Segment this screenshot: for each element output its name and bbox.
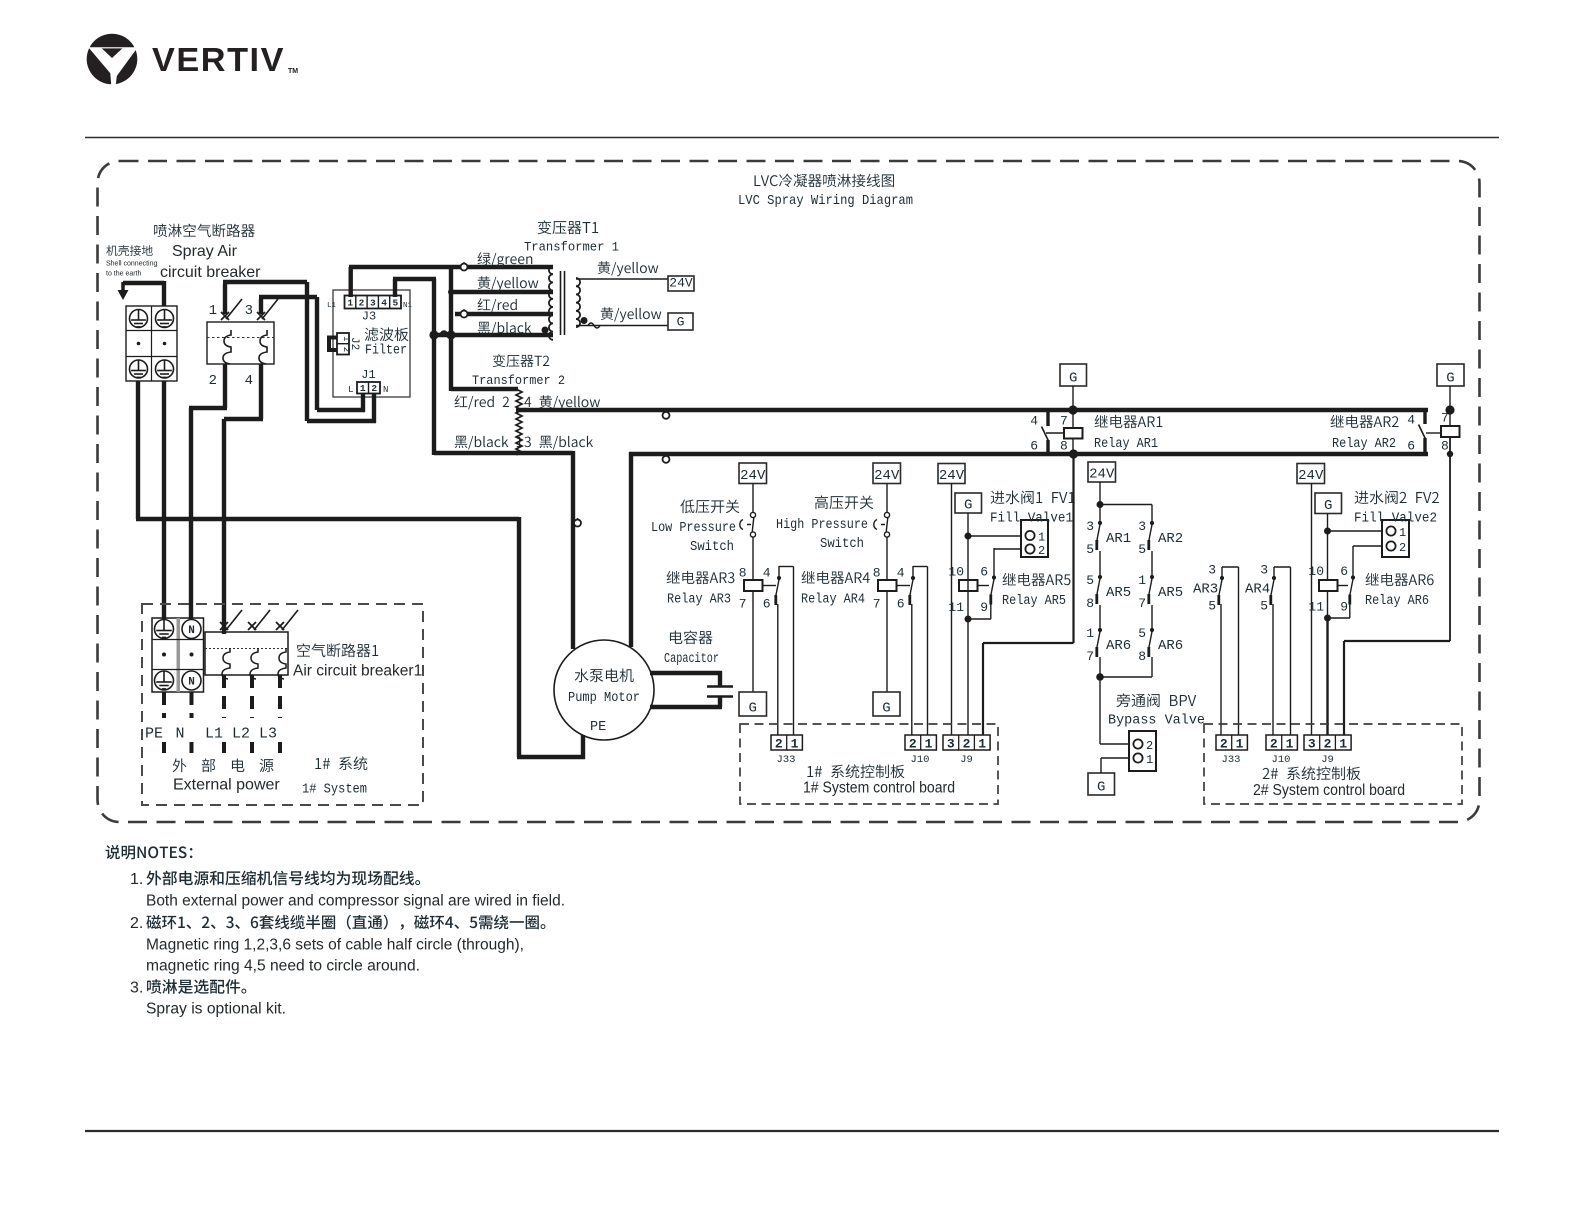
svg-text:8: 8: [1138, 649, 1146, 664]
svg-text:1: 1: [925, 736, 933, 751]
svg-text:1: 1: [1038, 531, 1045, 545]
svg-text:TM: TM: [288, 68, 298, 75]
svg-text:High Pressure: High Pressure: [776, 518, 868, 533]
svg-text:J9: J9: [1321, 754, 1334, 766]
svg-text:8: 8: [1060, 439, 1068, 454]
svg-text:2: 2: [371, 383, 377, 394]
svg-text:AR3: AR3: [1193, 582, 1218, 598]
svg-text:6: 6: [980, 565, 988, 580]
svg-text:3: 3: [947, 736, 955, 751]
svg-text:AR4: AR4: [1245, 582, 1270, 598]
svg-text:Fill Valve1: Fill Valve1: [990, 512, 1073, 527]
svg-text:AR5: AR5: [1158, 585, 1183, 601]
svg-text:2# System control board: 2# System control board: [1253, 782, 1405, 799]
svg-text:Spray is optional kit.: Spray is optional kit.: [146, 1001, 286, 1018]
svg-text:G: G: [677, 315, 685, 330]
svg-text:2: 2: [1399, 541, 1406, 555]
svg-text:4: 4: [1030, 414, 1038, 429]
svg-text:3: 3: [370, 298, 376, 309]
svg-text:1: 1: [209, 303, 217, 319]
svg-text:Switch: Switch: [690, 540, 734, 555]
svg-text:Bypass Valve: Bypass Valve: [1108, 714, 1205, 729]
svg-text:24V: 24V: [740, 468, 766, 484]
svg-text:3: 3: [1138, 519, 1146, 534]
svg-text:G: G: [749, 701, 757, 717]
svg-text:9: 9: [980, 600, 988, 615]
svg-text:G: G: [882, 701, 890, 717]
svg-text:J3: J3: [362, 310, 376, 324]
svg-text:magnetic ring 4,5 need to circ: magnetic ring 4,5 need to circle around.: [146, 958, 420, 975]
svg-text:2: 2: [1324, 736, 1332, 751]
svg-text:J9: J9: [960, 754, 973, 766]
svg-text:J10: J10: [911, 754, 930, 766]
svg-text:6: 6: [763, 597, 771, 612]
svg-text:3: 3: [1260, 563, 1268, 578]
svg-text:Air circuit breaker1: Air circuit breaker1: [293, 663, 422, 680]
svg-text:4: 4: [1407, 413, 1415, 428]
svg-text:7: 7: [739, 597, 747, 612]
svg-text:5: 5: [393, 298, 399, 309]
svg-text:24V: 24V: [1298, 468, 1324, 484]
svg-text:5: 5: [1086, 573, 1094, 588]
svg-text:2: 2: [775, 736, 783, 751]
svg-text:2: 2: [1146, 739, 1153, 753]
svg-text:1: 1: [347, 298, 353, 309]
svg-text:5: 5: [1138, 542, 1146, 557]
svg-text:7: 7: [873, 597, 881, 612]
svg-text:G: G: [964, 498, 972, 514]
svg-text:Shell connecting: Shell connecting: [106, 261, 157, 268]
svg-text:5: 5: [1086, 542, 1094, 557]
svg-text:Both external power and compre: Both external power and compressor signa…: [146, 893, 565, 910]
svg-text:1: 1: [1236, 736, 1244, 751]
svg-text:Transformer 1: Transformer 1: [524, 241, 619, 255]
svg-text:1: 1: [1138, 573, 1146, 588]
svg-text:4: 4: [763, 566, 771, 581]
svg-text:11: 11: [948, 600, 964, 615]
svg-text:1: 1: [1146, 753, 1153, 767]
svg-text:L3: L3: [259, 726, 277, 743]
svg-text:2: 2: [209, 373, 217, 389]
svg-text:Transformer 2: Transformer 2: [472, 374, 565, 388]
svg-text:External power: External power: [173, 777, 280, 794]
svg-text:1.: 1.: [130, 871, 143, 888]
svg-text:5: 5: [1260, 599, 1268, 614]
svg-text:L: L: [348, 385, 353, 395]
svg-text:10: 10: [948, 565, 964, 580]
svg-text:Relay AR1: Relay AR1: [1094, 437, 1158, 452]
svg-text:2: 2: [1270, 736, 1278, 751]
svg-text:2: 2: [909, 736, 917, 751]
svg-text:J33: J33: [1222, 754, 1241, 766]
svg-text:3: 3: [1086, 519, 1094, 534]
svg-text:G: G: [1097, 780, 1105, 796]
svg-text:2: 2: [963, 736, 971, 751]
svg-text:8: 8: [1441, 439, 1449, 454]
svg-text:8: 8: [873, 566, 881, 581]
svg-text:7: 7: [1060, 414, 1068, 429]
svg-text:1: 1: [1086, 626, 1094, 641]
svg-text:24V: 24V: [1089, 467, 1115, 483]
svg-text:8: 8: [739, 566, 747, 581]
svg-text:24V: 24V: [939, 468, 965, 484]
svg-text:2.: 2.: [130, 915, 143, 932]
svg-text:Pump Motor: Pump Motor: [568, 691, 640, 706]
svg-text:Relay AR5: Relay AR5: [1002, 594, 1066, 609]
svg-text:G: G: [1069, 371, 1077, 387]
svg-text:3: 3: [1208, 563, 1216, 578]
svg-text:N: N: [383, 385, 388, 395]
svg-text:2: 2: [359, 298, 365, 309]
svg-text:Fill Valve2: Fill Valve2: [1354, 512, 1437, 527]
svg-text:2: 2: [1038, 544, 1045, 558]
svg-text:J10: J10: [1272, 754, 1291, 766]
svg-text:7: 7: [1086, 649, 1094, 664]
svg-text:Spray Air: Spray Air: [172, 243, 238, 260]
svg-text:1: 1: [1339, 736, 1347, 751]
svg-text:24V: 24V: [874, 468, 900, 484]
svg-text:J33: J33: [777, 754, 796, 766]
svg-text:AR6: AR6: [1158, 638, 1183, 654]
svg-text:3: 3: [1308, 736, 1316, 751]
svg-text:6: 6: [1407, 439, 1415, 454]
svg-text:2: 2: [1220, 736, 1228, 751]
svg-text:11: 11: [1308, 600, 1324, 615]
svg-text:5: 5: [1208, 599, 1216, 614]
svg-text:to the earth: to the earth: [106, 271, 142, 278]
svg-text:N1: N1: [403, 302, 413, 310]
svg-text:5: 5: [1138, 626, 1146, 641]
svg-text:1: 1: [791, 736, 799, 751]
svg-text:10: 10: [1308, 564, 1324, 579]
svg-text:6: 6: [897, 597, 905, 612]
svg-text:N: N: [188, 625, 195, 637]
svg-text:6: 6: [1340, 564, 1348, 579]
svg-text:1: 1: [1399, 526, 1406, 540]
svg-text:3.: 3.: [130, 980, 143, 997]
svg-text:4: 4: [897, 566, 905, 581]
svg-text:AR6: AR6: [1106, 638, 1131, 654]
svg-text:Low Pressure: Low Pressure: [651, 521, 736, 536]
svg-text:Capacitor: Capacitor: [664, 652, 719, 667]
svg-text:6: 6: [1030, 439, 1038, 454]
svg-text:7: 7: [1441, 411, 1449, 426]
svg-text:LVC Spray Wiring Diagram: LVC Spray Wiring Diagram: [738, 193, 913, 209]
svg-text:9: 9: [1340, 600, 1348, 615]
svg-text:N: N: [175, 726, 184, 743]
svg-text:Magnetic ring 1,2,3,6 sets of: Magnetic ring 1,2,3,6 sets of cable half…: [146, 937, 524, 954]
svg-text:Filter: Filter: [365, 344, 407, 359]
svg-text:L1: L1: [327, 302, 337, 310]
svg-text:1: 1: [360, 383, 366, 394]
svg-text:PE: PE: [145, 726, 163, 743]
svg-text:AR5: AR5: [1106, 585, 1131, 601]
svg-text:1: 1: [1286, 736, 1294, 751]
svg-text:N: N: [188, 677, 195, 689]
svg-text:7: 7: [1138, 596, 1146, 611]
svg-text:Relay AR6: Relay AR6: [1365, 594, 1429, 609]
svg-text:L1: L1: [205, 726, 223, 743]
svg-text:3: 3: [245, 303, 253, 319]
svg-text:circuit breaker: circuit breaker: [160, 264, 261, 281]
svg-text:PE: PE: [590, 720, 606, 735]
svg-text:4: 4: [245, 373, 253, 389]
svg-text:G: G: [1324, 498, 1332, 514]
svg-text:1# System control board: 1# System control board: [803, 780, 955, 797]
svg-text:Switch: Switch: [820, 537, 864, 552]
svg-text:1# System: 1# System: [302, 782, 367, 798]
svg-text:4: 4: [381, 298, 387, 309]
svg-text:AR1: AR1: [1106, 531, 1131, 547]
svg-text:J2: J2: [348, 337, 360, 350]
svg-text:L2: L2: [232, 726, 250, 743]
svg-text:8: 8: [1086, 596, 1094, 611]
svg-text:24V: 24V: [669, 276, 693, 291]
svg-text:Relay AR3: Relay AR3: [667, 593, 731, 608]
svg-text:J1: J1: [361, 368, 375, 382]
svg-text:1: 1: [978, 736, 986, 751]
svg-text:AR2: AR2: [1158, 531, 1183, 547]
svg-text:G: G: [1446, 371, 1454, 387]
svg-text:Relay AR2: Relay AR2: [1332, 437, 1396, 452]
svg-text:Relay AR4: Relay AR4: [801, 593, 865, 608]
svg-text:VERTIV: VERTIV: [152, 42, 285, 79]
